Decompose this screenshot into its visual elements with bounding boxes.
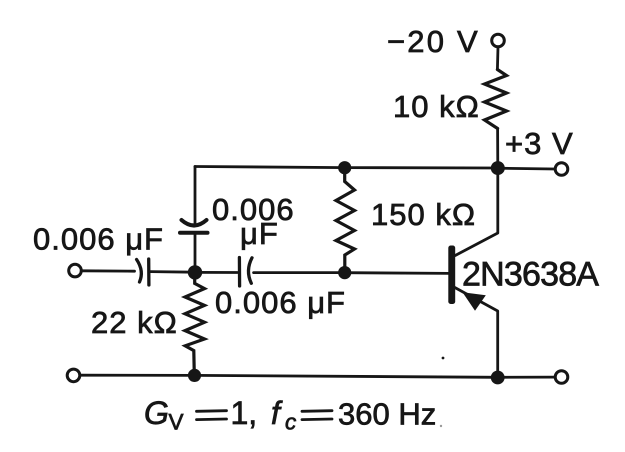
transistor Q1 base bar [448,246,455,305]
resistor R3 22k [185,273,205,376]
wire top rail down to C3 [194,167,197,225]
svg-text:V: V [169,410,184,435]
caption equals signs [197,411,333,420]
svg-text:+3 V: +3 V [505,126,574,161]
wire collector of Q1 [455,172,498,256]
terminal -20V supply [492,34,505,47]
wire C3 to node A [194,235,197,273]
wire node A to C2 [195,271,237,274]
svg-text:c: c [285,410,296,435]
junction node C (+3V) [491,161,505,175]
svg-text:0.006 μF: 0.006 μF [33,222,164,257]
svg-text:−20 V: −20 V [387,24,480,59]
svg-text:150 kΩ: 150 kΩ [371,197,476,232]
terminal +3V output [555,163,568,176]
wire C1 to node A [151,270,196,273]
wire top feedback rail [195,167,498,169]
terminal bottom left [67,369,80,382]
resistor R1 10k [485,70,507,129]
wire input to C1 [81,269,134,272]
wire bottom rail to right terminal [498,376,555,379]
svg-text:0.006 μF: 0.006 μF [215,285,346,320]
junction node bottom of emitter [491,371,505,385]
scan speck [440,425,442,427]
svg-text:360 Hz: 360 Hz [338,397,436,432]
capacitor C3 0.006uF top curved plate [182,220,207,226]
caption Gv = 1, fc = 360 Hz [144,395,436,435]
junction node top of R2 [338,161,351,174]
capacitor C2 0.006uF straight plate [238,258,242,287]
junction node A [188,265,202,279]
capacitor C1 0.006uF curved plate [137,260,142,283]
wire +3V to right terminal [498,167,555,171]
wire bottom rail [80,375,498,377]
capacitor C2 0.006uF curved plate [248,258,252,284]
svg-text:1,: 1, [231,395,258,431]
terminal bottom right [555,371,568,384]
wire emitter of Q1 [455,288,498,373]
svg-text:22 kΩ: 22 kΩ [91,305,178,340]
svg-text:G: G [144,395,169,431]
capacitor C3 0.006uF bottom plate [180,231,208,235]
wire supply to R1 [496,47,499,70]
transistor Q1 emitter arrow [463,292,486,311]
svg-text:μF: μF [240,216,279,251]
terminal input [69,264,82,277]
wire C2 to node B [254,271,345,274]
junction node B [338,266,351,279]
capacitor C1 0.006uF straight plate [147,259,150,285]
svg-text:10 kΩ: 10 kΩ [393,89,480,124]
svg-text:2N3638A: 2N3638A [462,256,599,294]
scan speck [442,357,445,360]
junction node bottom of R3 [188,369,201,382]
svg-text:f: f [271,395,283,431]
wire node B to base of Q1 [345,271,449,274]
resistor R2 150k [336,168,355,273]
wire R1 to node C [496,129,499,169]
